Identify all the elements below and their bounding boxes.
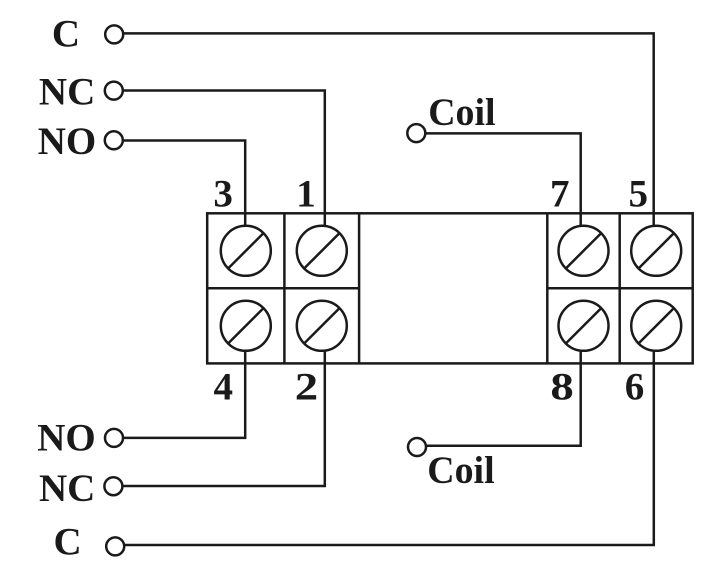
screw terminal 5 xyxy=(631,226,681,276)
wire NC bottom run xyxy=(113,326,324,486)
screw terminal 6 xyxy=(631,301,681,351)
svg-text:3: 3 xyxy=(213,172,233,215)
svg-text:NO: NO xyxy=(37,417,96,460)
svg-text:5: 5 xyxy=(628,172,648,215)
screw terminal 3 xyxy=(221,226,271,276)
svg-text:4: 4 xyxy=(213,365,233,408)
svg-text:1: 1 xyxy=(296,172,316,215)
node NC top xyxy=(105,82,123,100)
node Coil top xyxy=(407,124,425,142)
mid shelf right xyxy=(547,287,692,290)
divider right block left edge xyxy=(546,213,549,363)
svg-text:NC: NC xyxy=(39,71,95,114)
svg-text:8: 8 xyxy=(550,365,573,408)
svg-text:Coil: Coil xyxy=(428,91,495,134)
wire Coil bottom run xyxy=(417,326,581,446)
terminal block outline xyxy=(207,213,693,363)
node C top xyxy=(105,25,123,43)
divider left block center xyxy=(283,213,286,363)
screw terminal 7 xyxy=(559,226,609,276)
screw terminal 2 xyxy=(297,301,347,351)
mid shelf left xyxy=(207,287,359,290)
svg-text:2: 2 xyxy=(295,365,318,408)
svg-text:7: 7 xyxy=(550,172,570,215)
wire NO top run xyxy=(114,141,245,252)
screw terminal 8 xyxy=(559,301,609,351)
wire Coil top run xyxy=(416,133,580,251)
wire NC top run xyxy=(114,91,325,252)
wire C bottom run xyxy=(115,326,654,545)
svg-text:6: 6 xyxy=(625,365,645,408)
svg-text:Coil: Coil xyxy=(427,449,494,492)
divider left block right edge xyxy=(358,213,361,363)
node NO bottom xyxy=(105,429,123,447)
svg-text:NO: NO xyxy=(38,120,97,163)
svg-text:C: C xyxy=(54,520,82,563)
node NC bottom xyxy=(104,477,122,495)
screw terminal 1 xyxy=(297,226,347,276)
node NO top xyxy=(105,131,123,149)
divider right block center xyxy=(618,213,621,363)
svg-text:C: C xyxy=(52,13,80,56)
node C bottom xyxy=(106,537,124,555)
screw terminal 4 xyxy=(221,301,271,351)
wire NO bottom run xyxy=(114,326,245,438)
node Coil bottom xyxy=(408,438,426,456)
svg-text:NC: NC xyxy=(39,467,95,510)
wire C top run xyxy=(114,33,654,251)
